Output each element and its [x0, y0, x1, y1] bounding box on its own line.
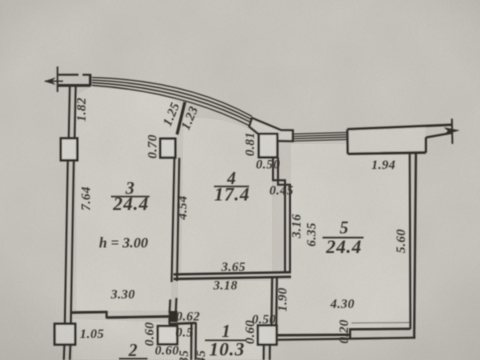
room 4 fraction bar: [214, 185, 249, 187]
section marker tick left: [57, 67, 59, 93]
room 5 interior: [279, 144, 409, 334]
left wall middle: [65, 160, 68, 324]
room 5 fraction bar: [323, 237, 364, 239]
wall between room2 and room1: [190, 323, 192, 360]
balcony window arc (4 lines): [92, 78, 252, 117]
wall between rooms 3 and 1 (below door): [169, 300, 172, 314]
room 1 interior: [178, 281, 270, 360]
column on left wall (upper): [61, 138, 78, 160]
top-left wall segment: [58, 74, 79, 76]
column at room5 bottom-left: [258, 325, 277, 344]
column at top of wall between rooms 3 and 4: [160, 139, 175, 158]
wall between rooms 3 and 4 (upper): [172, 158, 175, 282]
room 5 bottom wall jog (0.20): [349, 329, 351, 339]
column left of room1 door: [158, 326, 177, 344]
section arrow left: [45, 80, 63, 82]
room3 bottom wall step: [105, 311, 107, 318]
straight window right of bend (4 lines): [293, 132, 348, 134]
room3/room2 bottom wall right part: [107, 316, 170, 317]
room 3 fraction bar: [111, 196, 150, 198]
column on left wall (lower): [55, 324, 76, 345]
left wall bottom stub: [63, 344, 66, 360]
room 5 bottom wall outer: [277, 338, 416, 340]
room4/room5 wall upper with jog: [273, 158, 285, 274]
wall junction block: [169, 311, 178, 322]
left wall upper: [69, 86, 70, 139]
section arrow right: [444, 127, 460, 135]
room 3 interior: [76, 87, 183, 311]
room 4 interior: [182, 118, 273, 273]
wall between room1 and room5: [270, 278, 273, 326]
diagonal wall band at window bend: [249, 118, 292, 141]
column below window bend: [259, 134, 278, 158]
room 2 fraction bar: [119, 358, 148, 360]
room 1 fraction bar: [205, 339, 247, 341]
faint inner line: [352, 322, 411, 325]
step to room1 top-left corner: [168, 318, 170, 325]
room 5 bottom wall inner right: [349, 328, 410, 331]
wall below column to bottom edge: [263, 345, 265, 360]
room 2 interior: [73, 319, 190, 360]
room3 bottom wall left part: [72, 311, 107, 314]
room 5 bottom wall inner left: [277, 333, 350, 336]
room 4 bottom wall (double): [174, 272, 292, 274]
balcony divider tick: [177, 102, 185, 135]
section marker tick right: [451, 119, 454, 144]
top-right wall block: [348, 127, 425, 153]
room 5 right wall: [409, 153, 412, 329]
